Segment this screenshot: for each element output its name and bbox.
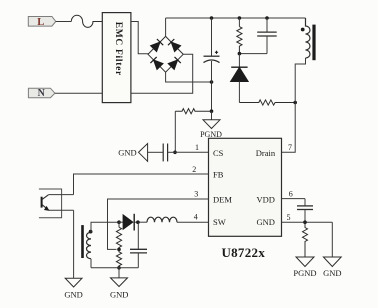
resistor R1 (current sense) xyxy=(175,109,211,114)
pin number 7 xyxy=(288,143,292,152)
bridge diode D2 (top-right) xyxy=(168,39,181,52)
svg-text:VDD: VDD xyxy=(257,194,275,204)
svg-text:1: 1 xyxy=(195,143,199,152)
capacitor C2 (clamp) xyxy=(239,18,276,54)
wire pin 6 VDD xyxy=(282,198,306,200)
wire pin5 to GND symbol xyxy=(331,222,333,257)
ground GND (opto emitter) xyxy=(65,278,82,287)
plus sign C1 xyxy=(215,51,218,54)
pin label FB xyxy=(213,170,224,180)
svg-text:2: 2 xyxy=(192,165,196,174)
ground GND (bottom) xyxy=(323,257,341,267)
wire L2 to pin 4 SW xyxy=(177,221,209,223)
diode D6 (aux rectifier) xyxy=(119,214,147,231)
svg-text:DEM: DEM xyxy=(213,194,232,204)
wire pin 5 GND xyxy=(282,221,333,223)
capacitor C5 (VDD) xyxy=(297,199,313,223)
junction bottom rail node xyxy=(117,266,121,270)
bridge rectifier outline xyxy=(148,36,183,72)
EMC filter label xyxy=(113,22,123,76)
pin label CS xyxy=(213,148,224,158)
junction clamp node xyxy=(238,52,242,56)
svg-text:GND: GND xyxy=(257,217,275,227)
diode D5 (clamp) xyxy=(231,54,249,103)
resistor R3 (clamp series) xyxy=(239,100,295,105)
op-amp U1 (controller U8722x) body xyxy=(209,138,282,236)
svg-text:GND: GND xyxy=(323,268,341,278)
bridge diode D1 (top-left) xyxy=(151,39,164,52)
ground GND (divider) xyxy=(111,278,128,287)
junction pin5 node xyxy=(303,220,307,224)
ground PGND (bridge return) xyxy=(203,120,220,129)
resistor R4a (divider top) xyxy=(116,222,121,249)
wire T2 top to divider node xyxy=(91,222,119,232)
wire pin 2 FB xyxy=(74,174,209,195)
pin number 3 xyxy=(194,190,198,199)
junction divider top node xyxy=(117,220,121,224)
wire N out to bridge right corner xyxy=(131,54,193,93)
resistor R4b (divider bottom) xyxy=(116,249,121,267)
svg-text:CS: CS xyxy=(213,148,224,158)
svg-text:GND: GND xyxy=(110,289,128,299)
junction drain node xyxy=(293,101,297,105)
wire bridge bottom to return xyxy=(166,72,212,82)
svg-text:GND: GND xyxy=(64,289,82,299)
junction aux cathode node xyxy=(136,220,140,224)
svg-text:EMC Filter: EMC Filter xyxy=(113,22,123,76)
label PGND (bridge return) xyxy=(200,130,222,139)
wire CS node to pin 1 xyxy=(175,151,209,153)
bridge diode D3 (bottom-left) xyxy=(150,57,163,70)
transformer T1 core xyxy=(312,25,315,61)
svg-text:PGND: PGND xyxy=(200,130,222,139)
wire T2 bottom to rail xyxy=(90,259,92,268)
fuse F1 xyxy=(71,15,102,27)
transistor Q1 (opto) package xyxy=(39,189,62,218)
wire CS riser xyxy=(174,111,176,152)
svg-text:PGND: PGND xyxy=(293,268,316,278)
junction divider mid node xyxy=(117,248,121,252)
wire emitter to GND xyxy=(73,210,75,278)
transformer T1 primary winding xyxy=(306,18,311,58)
junction rail-R2 xyxy=(238,16,242,20)
DC+ rail xyxy=(166,17,306,19)
pin number 6 xyxy=(289,189,293,198)
pin label Drain xyxy=(256,148,276,158)
ground PGND (bottom) xyxy=(296,257,314,267)
junction rail-C2 xyxy=(265,16,269,20)
resistor R5 (GND-PGND) xyxy=(303,222,308,257)
svg-text:N: N xyxy=(38,88,46,99)
pin number 2 xyxy=(192,165,196,174)
wire N to EMC filter xyxy=(55,92,102,94)
pin label DEM xyxy=(213,194,232,204)
svg-text:FB: FB xyxy=(213,170,224,180)
phase dot T2 xyxy=(89,230,93,234)
bottom rail xyxy=(91,267,138,269)
pin label VDD xyxy=(257,194,275,204)
inductor L2 (SW) xyxy=(147,217,177,222)
resistor R2 (clamp) xyxy=(237,18,242,54)
phase dot T1 primary xyxy=(301,28,305,32)
junction sense node xyxy=(210,109,214,113)
svg-text:SW: SW xyxy=(213,217,226,227)
pin label GND xyxy=(257,217,275,227)
svg-text:7: 7 xyxy=(288,143,292,152)
label GND (opto emitter) xyxy=(64,289,82,299)
pin label SW xyxy=(213,217,226,227)
wire to mid GND xyxy=(118,268,120,278)
wire return to sense node xyxy=(211,82,213,111)
junction CS node xyxy=(173,151,177,155)
junction rail-C1 xyxy=(210,16,214,20)
pin number 5 xyxy=(287,213,291,222)
wire T1 primary to drain node xyxy=(295,58,305,103)
label U8722x xyxy=(221,245,265,260)
wire pin 3 DEM xyxy=(108,199,209,249)
svg-text:6: 6 xyxy=(289,189,293,198)
wire L to fuse xyxy=(56,21,72,23)
wire sense node down xyxy=(211,111,213,120)
svg-text:5: 5 xyxy=(287,213,291,222)
svg-text:L: L xyxy=(37,17,44,28)
svg-text:4: 4 xyxy=(194,213,198,222)
bridge diode D4 (bottom-right) xyxy=(168,57,181,70)
label GND (CS cap) xyxy=(118,148,136,158)
svg-text:Drain: Drain xyxy=(256,148,276,158)
label GND (divider) xyxy=(110,289,128,299)
junction return node xyxy=(210,80,214,84)
wire drain node to pin 7 xyxy=(282,103,296,153)
capacitor C4 (aux) xyxy=(130,222,147,268)
net tag L xyxy=(28,17,56,28)
transformer T2 core xyxy=(81,225,84,258)
net tag N xyxy=(28,88,55,99)
label PGND (bottom) xyxy=(293,268,316,278)
label GND (bottom) xyxy=(323,268,341,278)
capacitor C1 (bulk electrolytic) xyxy=(204,18,220,82)
capacitor C3 (CS filter) xyxy=(148,144,175,162)
pin number 1 xyxy=(195,143,199,152)
EMC filter box xyxy=(102,13,131,103)
svg-text:3: 3 xyxy=(194,190,198,199)
ground GND (CS cap) xyxy=(139,144,148,162)
svg-text:GND: GND xyxy=(118,148,136,158)
transistor Q1 body xyxy=(42,195,74,211)
wire bridge top to rail xyxy=(165,18,167,36)
transformer T2 aux winding xyxy=(87,232,92,258)
svg-text:U8722x: U8722x xyxy=(221,245,265,260)
pin number 4 xyxy=(194,213,198,222)
wire L out to bridge left corner xyxy=(131,22,148,55)
